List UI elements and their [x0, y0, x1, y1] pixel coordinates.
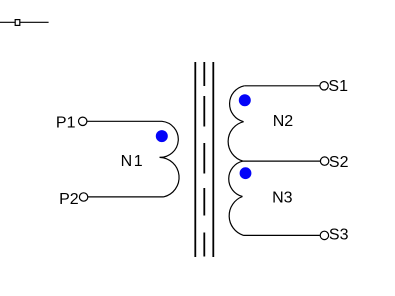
terminal pin S2 [320, 157, 328, 165]
wire P1 [87, 120, 162, 122]
svg-text:S1: S1 [328, 78, 348, 95]
wire P2 [88, 196, 164, 198]
wire S1 [244, 85, 319, 87]
transformer secondary winding N2 [230, 86, 245, 122]
terminal pin P1 [79, 117, 87, 125]
svg-text:S2: S2 [329, 154, 349, 171]
terminal pin P2 [79, 193, 87, 201]
transformer core right line [212, 62, 214, 257]
polarity dot N3 [240, 167, 252, 179]
svg-text:N3: N3 [272, 190, 293, 207]
svg-text:N2: N2 [273, 113, 294, 130]
wire top-left horizontal [0, 21, 49, 23]
terminal pin S3 [320, 231, 328, 239]
transformer core left line [194, 62, 196, 257]
wire S2 [243, 160, 320, 162]
svg-text:N1: N1 [121, 153, 145, 170]
svg-text:S3: S3 [329, 227, 349, 244]
transformer primary winding N1 [160, 121, 179, 157]
wire S3 [244, 234, 320, 236]
transformer secondary winding N3 [229, 161, 243, 196]
svg-text:P1: P1 [56, 114, 76, 131]
node handle square on top-left wire [15, 20, 20, 26]
transformer core dashed centre line [203, 62, 205, 86]
svg-text:P2: P2 [59, 191, 79, 208]
terminal pin S1 [320, 82, 328, 90]
polarity dot N1 [156, 130, 168, 142]
polarity dot N2 [239, 94, 251, 106]
